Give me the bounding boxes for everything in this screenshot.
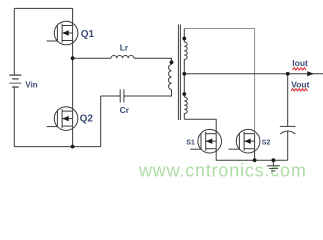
svg-text:www.cntronics.com: www.cntronics.com xyxy=(138,161,307,181)
wire secondary bottom to S1 drain xyxy=(184,119,216,133)
svg-text:Lr: Lr xyxy=(120,43,129,53)
wire Q1 source to node A xyxy=(72,41,74,59)
svg-text:Iout: Iout xyxy=(292,58,308,68)
center tap junction dot xyxy=(182,72,186,76)
wire S1 source to bottom rail xyxy=(216,149,288,161)
transformer T1 secondary bottom winding xyxy=(184,74,187,120)
wire Q2 drain from node A xyxy=(72,58,74,111)
wire secondary top to S2 drain xyxy=(184,29,254,134)
transistor S2 xyxy=(229,129,260,153)
transformer T1 core xyxy=(178,25,180,121)
output node junction dot xyxy=(286,72,290,76)
wire Lr to transformer primary xyxy=(134,58,172,64)
wire Cr branch vertical xyxy=(100,96,102,147)
squiggle under Iout xyxy=(293,68,307,70)
inductor Lr xyxy=(111,55,134,58)
wire bottom-left rail xyxy=(14,146,100,148)
transistor Q2 xyxy=(47,107,78,131)
svg-text:Q1: Q1 xyxy=(81,29,95,40)
junction dot bottom rail xyxy=(71,145,75,149)
svg-text:Cr: Cr xyxy=(120,105,130,115)
wire center tap output rail xyxy=(184,73,323,75)
battery Vin xyxy=(9,75,21,87)
wire Cr left lead xyxy=(101,95,121,97)
svg-text:Vin: Vin xyxy=(25,81,37,90)
svg-text:S1: S1 xyxy=(186,140,195,147)
S2 source junction dot xyxy=(253,158,257,162)
wire Cr right lead to primary bottom xyxy=(124,90,172,97)
wire output cap branch xyxy=(287,74,289,127)
wire left rail to battery xyxy=(13,8,15,75)
wire S2 source xyxy=(254,149,256,161)
svg-text:S2: S2 xyxy=(262,139,271,146)
svg-text:Q2: Q2 xyxy=(80,114,94,125)
transistor Q1 xyxy=(47,21,78,45)
squiggle under Vout xyxy=(291,89,307,91)
wire cap to bottom rail xyxy=(287,131,289,160)
primary phase dot xyxy=(170,60,174,64)
ground xyxy=(267,160,280,171)
transformer T1 primary winding xyxy=(169,65,172,90)
Iout arrowhead xyxy=(307,71,314,76)
capacitor Cr xyxy=(120,89,124,102)
wire Q2 source to bottom rail xyxy=(72,126,74,147)
secondary top phase dot xyxy=(182,37,186,41)
wire left rail bottom xyxy=(13,87,15,147)
capacitor Cout xyxy=(280,126,296,134)
svg-text:Vout: Vout xyxy=(291,80,309,90)
transformer T1 secondary top winding xyxy=(184,29,187,74)
secondary bottom phase dot xyxy=(182,92,186,96)
transistor S1 xyxy=(190,129,221,153)
wire top-left rail xyxy=(14,8,72,25)
wire node A to inductor Lr xyxy=(73,57,111,59)
ground junction dot xyxy=(272,158,276,162)
node A junction dot xyxy=(71,56,75,60)
